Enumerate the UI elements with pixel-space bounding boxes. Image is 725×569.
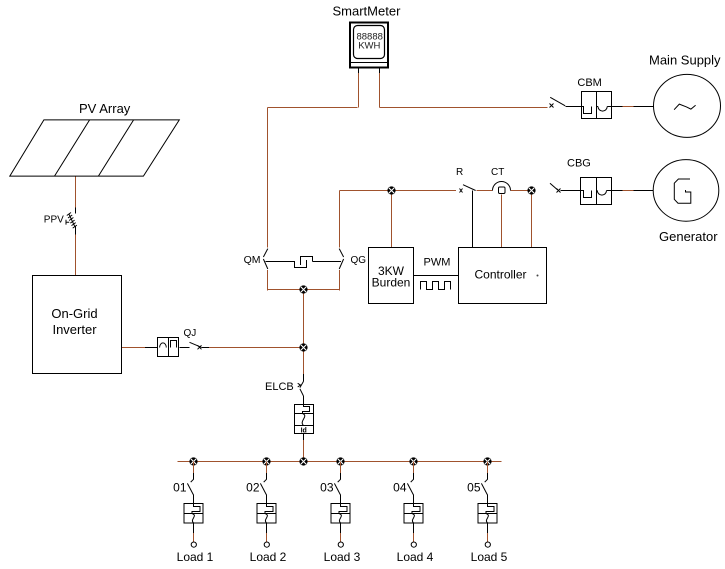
svg-text:Generator: Generator: [659, 229, 718, 244]
svg-text:R: R: [456, 167, 463, 178]
svg-text:Load 5: Load 5: [471, 550, 508, 564]
svg-text:QG: QG: [351, 255, 367, 266]
svg-text:PWM: PWM: [424, 257, 451, 269]
svg-text:Id: Id: [301, 428, 307, 435]
svg-text:ELCB: ELCB: [265, 381, 294, 393]
svg-text:PV Array: PV Array: [79, 101, 131, 116]
svg-text:01: 01: [173, 481, 187, 495]
svg-text:QM: QM: [244, 254, 261, 266]
svg-text:Controller: Controller: [474, 268, 526, 282]
svg-text:Burden: Burden: [372, 276, 411, 290]
svg-text:03: 03: [320, 481, 334, 495]
svg-text:KWH: KWH: [358, 41, 380, 52]
svg-text:CBG: CBG: [567, 158, 591, 170]
svg-text:05: 05: [467, 481, 481, 495]
svg-text:Main Supply: Main Supply: [649, 53, 721, 68]
svg-text:Load 2: Load 2: [250, 550, 287, 564]
svg-text:CBM: CBM: [577, 77, 601, 89]
svg-text:SmartMeter: SmartMeter: [333, 4, 402, 19]
svg-text:Inverter: Inverter: [52, 322, 97, 337]
svg-text:Load 3: Load 3: [324, 550, 361, 564]
svg-text:QJ: QJ: [184, 328, 197, 339]
svg-text:PPV: PPV: [44, 214, 64, 225]
svg-text:Load 4: Load 4: [397, 550, 434, 564]
svg-text:02: 02: [246, 481, 260, 495]
svg-text:On-Grid: On-Grid: [51, 306, 97, 321]
svg-text:04: 04: [393, 481, 407, 495]
svg-text:Load 1: Load 1: [177, 550, 214, 564]
svg-text:CT: CT: [491, 167, 504, 178]
